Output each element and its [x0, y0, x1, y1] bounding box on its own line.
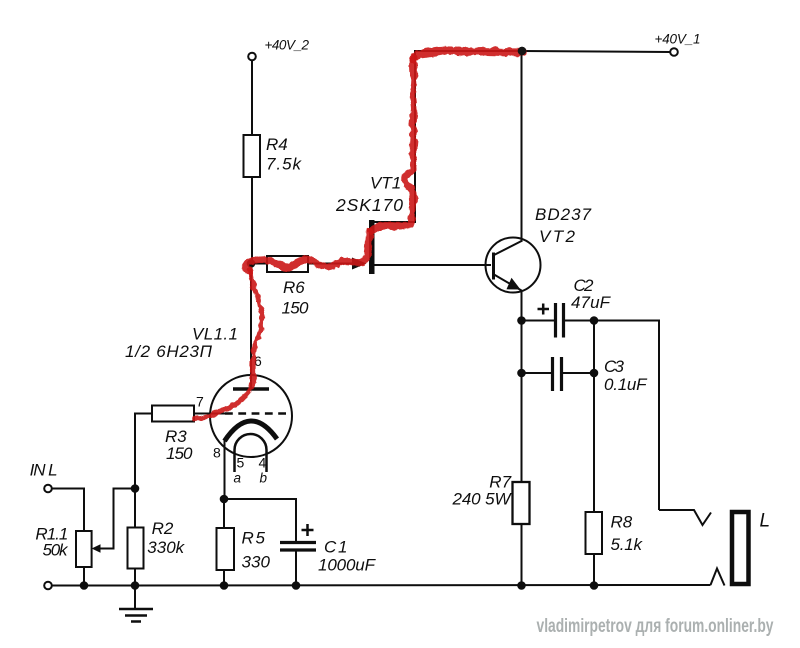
wire node E to C3 [522, 372, 553, 374]
resistor R2 [128, 519, 186, 569]
svg-text:VT2: VT2 [539, 227, 576, 246]
node K (R2 / rail / ground) [131, 581, 140, 590]
svg-text:1000uF: 1000uF [318, 556, 377, 575]
wire R3 to grid node [135, 414, 152, 490]
node F (C3 right / R8) [590, 369, 599, 378]
speaker L [732, 511, 770, 585]
capacitor C3 [553, 357, 649, 394]
svg-text:VT1: VT1 [370, 174, 401, 193]
svg-text:7.5k: 7.5k [266, 155, 303, 174]
svg-text:5.1k: 5.1k [611, 535, 644, 554]
ground [119, 586, 153, 622]
svg-text:R5: R5 [242, 529, 266, 548]
wire R8 to bottom rail [593, 554, 595, 586]
svg-text:R6: R6 [283, 278, 305, 297]
potentiometer R1.1 [35, 525, 91, 568]
watermark [537, 616, 776, 639]
svg-text:vladimirpetrov для forum.onlin: vladimirpetrov для forum.onliner.by [537, 616, 774, 637]
gate arrow of VT1 [352, 258, 367, 270]
terminal +40V_1 [655, 32, 701, 56]
svg-text:1/2 6Н23П: 1/2 6Н23П [125, 342, 213, 361]
svg-text:R8: R8 [611, 513, 633, 532]
wire R7 to bottom rail [521, 524, 523, 586]
node G (R7 / bottom rail) [517, 581, 526, 590]
node E (C3 left) [517, 369, 526, 378]
wire collector of VT2 [521, 51, 523, 242]
node D [590, 316, 599, 325]
svg-text:150: 150 [166, 444, 193, 463]
wire input to pot top [52, 489, 84, 532]
svg-text:150: 150 [282, 299, 310, 318]
wire node D to node F to R8 [593, 321, 595, 513]
wire C2 to node D [564, 320, 595, 322]
svg-text:b: b [260, 471, 268, 486]
resistor R4 [244, 135, 303, 177]
svg-text:7: 7 [196, 394, 204, 410]
wire emitter down [521, 290, 523, 321]
wire node E to R7 [521, 373, 523, 482]
node M (R5 / rail) [220, 581, 229, 590]
wire R4 to node A [251, 177, 253, 264]
input terminal bottom [44, 582, 52, 590]
wire C1 to rail [295, 550, 297, 586]
svg-text:330k: 330k [147, 538, 185, 557]
resistor R5 [217, 528, 271, 572]
svg-text:5: 5 [237, 455, 245, 471]
tube VL1.1 envelope [125, 325, 292, 458]
pot wiper arrow [92, 489, 135, 553]
resistor R7 [452, 473, 530, 525]
node A (anode junction) [247, 259, 256, 268]
wire node A to R6 [251, 263, 268, 265]
cathode lead [224, 440, 226, 499]
svg-text:C1: C1 [324, 538, 348, 557]
svg-text:C3: C3 [604, 357, 625, 376]
svg-text:R2: R2 [152, 519, 174, 538]
node I (R2 top) [131, 484, 140, 493]
svg-text:BD237: BD237 [535, 205, 592, 224]
resistor R6 [267, 256, 309, 318]
tube grid (dashed) [225, 412, 287, 415]
svg-text:IN L: IN L [30, 461, 58, 480]
svg-text:a: a [234, 471, 242, 486]
wire R2 to rail [134, 569, 136, 587]
svg-text:L: L [760, 511, 771, 532]
tube cathode arc [225, 421, 278, 441]
pot bottom lead [83, 567, 85, 586]
wire node C to C2 [522, 320, 556, 322]
transistor VT2 [486, 205, 592, 293]
node B (collector/rail junction) [518, 47, 527, 56]
wire cathode node to R5 [223, 499, 225, 528]
wire VT1 source to VT2 base [374, 264, 491, 266]
tube anode plate [233, 387, 269, 391]
svg-text:+40V_1: +40V_1 [655, 32, 701, 47]
wire VT1 drain up to +40V_1 rail [372, 51, 522, 222]
svg-text:240 5W: 240 5W [452, 490, 513, 509]
svg-text:330: 330 [242, 553, 271, 572]
svg-text:0.1uF: 0.1uF [604, 375, 648, 394]
capacitor C2 [538, 276, 612, 338]
bottom rail [48, 584, 711, 587]
svg-text:50k: 50k [43, 541, 70, 560]
wire emitter rail down to node E [521, 321, 523, 374]
svg-text:2SK170: 2SK170 [335, 195, 403, 215]
tube anode lead [250, 264, 252, 389]
wire R2 [134, 489, 136, 529]
output hook top (V clip) [659, 510, 711, 525]
input terminal top [30, 461, 58, 493]
grid lead [194, 413, 225, 415]
node N (C1 / rail) [292, 581, 301, 590]
node H (R8 / bottom rail) [590, 581, 599, 590]
node J (pot / bottom rail) [80, 581, 89, 590]
svg-text:4: 4 [259, 455, 267, 471]
wire rail to terminal [522, 51, 670, 52]
transistor VT1 channel bar [335, 174, 403, 275]
red marker trace [194, 51, 523, 419]
resistor R8 [586, 512, 644, 554]
terminal +40V_2 [248, 38, 309, 61]
svg-text:VL1.1: VL1.1 [192, 325, 238, 344]
wire V2 to R4 [251, 61, 253, 136]
svg-text:+40V_2: +40V_2 [265, 38, 310, 53]
svg-text:8: 8 [213, 445, 221, 461]
svg-text:R4: R4 [266, 135, 288, 154]
wire R5 to rail [223, 570, 225, 586]
wire node D to right rail [594, 321, 659, 511]
wire cathode node to C1 [224, 499, 296, 541]
resistor R3 [152, 406, 194, 464]
svg-text:47uF: 47uF [571, 293, 612, 312]
capacitor C1 [280, 524, 377, 575]
wire C3 to node F [562, 372, 595, 374]
node C (emitter / C2) [517, 316, 526, 325]
tube heater [235, 434, 267, 472]
output hook bottom (caret) [711, 569, 725, 586]
node B dot over red [518, 47, 527, 56]
tube cathode junction node L [220, 495, 229, 504]
wire R6 to gate [308, 263, 353, 265]
